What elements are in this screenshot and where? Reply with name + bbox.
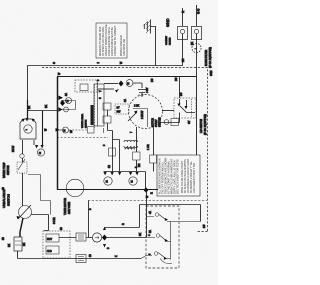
svg-text:1 OR: 1 OR <box>147 144 150 150</box>
svg-text:(IF SO EQUIPPED): (IF SO EQUIPPED) <box>204 114 207 135</box>
svg-text:BU: BU <box>203 224 206 228</box>
wire motor to lid switch <box>162 110 174 112</box>
legend box 2 (bottom notes) <box>157 155 200 196</box>
legend box 1 text <box>99 24 126 56</box>
svg-text:WATER TEMP: WATER TEMP <box>3 162 6 178</box>
switch 3 <box>141 253 172 264</box>
timer switch box (dashed) <box>146 206 179 268</box>
cabinet/base dashed separator L2 <box>88 200 207 202</box>
svg-text:NOISE FILTER: NOISE FILTER <box>205 50 208 66</box>
motor run circle M <box>126 80 133 87</box>
svg-text:N: N <box>181 11 185 13</box>
svg-text:3A: 3A <box>65 93 68 96</box>
coil winding <box>136 127 138 172</box>
drive motor (washer) <box>20 119 36 139</box>
svg-text:LID SWITCH: LID SWITCH <box>200 119 203 133</box>
svg-text:R: R <box>122 223 125 225</box>
motor internal wire T <box>133 109 148 128</box>
pressure switch black bar <box>91 105 94 125</box>
svg-text:1B: 1B <box>108 165 111 168</box>
svg-text:120V 60HZ: 120V 60HZ <box>68 201 71 214</box>
pressure switch block <box>94 84 104 126</box>
wire down to fuse <box>20 218 23 237</box>
svg-text:BK: BK <box>8 243 11 247</box>
wire from console left <box>28 110 58 112</box>
motor circle (dashed) <box>129 95 163 129</box>
svg-text:BK-W: BK-W <box>12 145 15 152</box>
legend box 2 text <box>159 157 197 194</box>
svg-text:M: M <box>106 181 108 184</box>
windings drop wires <box>103 103 111 110</box>
winding circles <box>104 177 112 185</box>
svg-text:(L1): (L1) <box>196 9 200 14</box>
svg-text:8A: 8A <box>124 99 127 102</box>
svg-text:WATER LEVEL: WATER LEVEL <box>81 113 84 128</box>
water valve dashed box <box>43 231 70 258</box>
svg-text:CABINET: CABINET <box>165 35 168 45</box>
motor switch arm <box>128 112 137 121</box>
junction diamond <box>102 235 107 241</box>
svg-text:BK: BK <box>28 105 31 109</box>
junction diamond on console bottom <box>144 187 149 193</box>
svg-text:R: R <box>151 192 154 194</box>
switch 1 <box>146 215 201 222</box>
console dashed sub-box (switch) <box>75 80 97 92</box>
svg-text:BU: BU <box>182 58 185 62</box>
svg-text:HOT: HOT <box>47 238 53 241</box>
svg-text:UNBALANCE: UNBALANCE <box>2 190 6 208</box>
terminal TB-L1 <box>192 27 202 40</box>
svg-text:SWITCH: SWITCH <box>7 194 11 206</box>
pump motor circle <box>92 233 101 242</box>
lid switch contacts <box>180 99 196 113</box>
internal bus <box>170 222 172 260</box>
cabinet dashed outline <box>42 68 208 232</box>
svg-text:5A: 5A <box>149 230 152 233</box>
svg-text:(IF SO EQUIPPED): (IF SO EQUIPPED) <box>209 47 212 68</box>
svg-text:GY: GY <box>188 120 191 124</box>
svg-text:S: S <box>52 62 56 64</box>
svg-text:SWITCH: SWITCH <box>7 165 10 175</box>
pump motor circle <box>37 149 44 156</box>
svg-text:BK: BK <box>45 104 48 108</box>
svg-text:TIMER MOTOR: TIMER MOTOR <box>64 198 67 215</box>
wire w/ arrow <box>98 88 114 90</box>
svg-text:M: M <box>127 83 129 86</box>
svg-text:2 BK-W: 2 BK-W <box>141 110 144 119</box>
svg-text:SEE TECH SHEET FOR TESTS: SEE TECH SHEET FOR TESTS <box>177 159 180 194</box>
terminal TB-N <box>178 27 188 40</box>
console/cabinet dashed separator <box>57 137 108 139</box>
wire to motor row <box>104 83 118 85</box>
ground wire <box>155 26 157 66</box>
svg-text:120V 60HZ 15A: 120V 60HZ 15A <box>123 39 126 56</box>
bottom bus wire <box>18 258 142 260</box>
svg-text:4 GY: 4 GY <box>146 87 149 93</box>
timer motor circle <box>66 179 84 197</box>
svg-text:FRAME: FRAME <box>169 37 172 45</box>
noise filter FL1 <box>192 43 201 52</box>
svg-text:CLD: CLD <box>47 250 52 253</box>
lid switch dashed box <box>174 98 196 118</box>
svg-text:GRN: GRN <box>210 70 213 76</box>
svg-text:BK: BK <box>191 41 194 45</box>
windings bus <box>104 172 146 190</box>
svg-text:BK: BK <box>139 232 142 236</box>
svg-text:BU: BU <box>180 92 183 96</box>
console box <box>57 77 197 190</box>
svg-text:34 BR: 34 BR <box>53 217 56 224</box>
svg-text:4A: 4A <box>149 211 152 214</box>
motor internal dashed box <box>115 104 129 114</box>
svg-text:M: M <box>63 130 65 133</box>
svg-text:M: M <box>131 181 133 184</box>
legend box (top notes) <box>96 23 127 58</box>
wire right of unbalance <box>31 215 49 231</box>
svg-text:GND: GND <box>166 18 170 27</box>
node terminals on left <box>61 101 76 110</box>
valve coils <box>76 233 86 241</box>
svg-text:BU: BU <box>151 78 154 82</box>
svg-text:ST: ST <box>117 107 121 110</box>
unbalance switch chain <box>22 140 24 206</box>
node N supply wire <box>28 8 183 100</box>
unbalance circle <box>19 206 32 219</box>
console row wires (dashed) <box>57 129 62 131</box>
svg-text:M: M <box>39 152 41 155</box>
svg-text:CONNECTED TO CABINET: CONNECTED TO CABINET <box>114 25 117 56</box>
svg-text:GRN GREEN P PINK T TAN: GRN GREEN P PINK T TAN <box>193 163 196 193</box>
capacitor C1 <box>138 90 146 98</box>
svg-text:M: M <box>67 100 69 103</box>
lid switch exit <box>160 113 180 123</box>
arrow into drive motor <box>26 118 29 122</box>
fuse <box>14 237 22 251</box>
svg-text:BK: BK <box>23 242 26 246</box>
svg-text:BU: BU <box>175 77 178 81</box>
ground symbol <box>144 20 155 34</box>
junction diamond <box>119 81 124 87</box>
svg-text:2 BK: 2 BK <box>134 105 140 108</box>
switch 2 <box>146 236 171 242</box>
wire drop to pump M <box>42 111 44 147</box>
svg-text:BN: BN <box>138 163 141 167</box>
node L1 supply wire <box>196 5 198 77</box>
start winding chain <box>153 125 155 172</box>
svg-text:SWITCH: SWITCH <box>86 119 88 128</box>
